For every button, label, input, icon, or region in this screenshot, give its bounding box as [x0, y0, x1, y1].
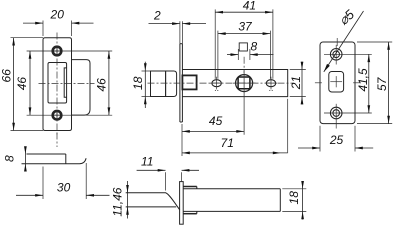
collar bottom [183, 213, 197, 215]
dimension 11,46 bolt height [127, 181, 129, 219]
svg-text:45: 45 [209, 114, 223, 128]
svg-text:18: 18 [287, 191, 301, 205]
dimension 37 [218, 33, 271, 35]
diameter 5 leader line [324, 11, 364, 72]
vertical center line [56, 33, 58, 137]
svg-text:8: 8 [3, 155, 17, 162]
dimension 21 body height [290, 69, 306, 71]
extension lines through screw holes [27, 50, 113, 52]
dimension 30 profile width [42, 167, 44, 200]
dimension 57 [357, 41, 392, 43]
faceplate screw hole upper [330, 49, 342, 61]
collar top [183, 186, 197, 188]
svg-text:25: 25 [329, 133, 344, 147]
screw hole center ticks [335, 45, 337, 65]
slot dots [215, 90, 216, 91]
svg-text:21: 21 [289, 76, 303, 90]
faceplate edge-on [179, 21, 181, 43]
faceplate screw hole lower [330, 107, 342, 119]
dimension 71 [182, 152, 287, 154]
svg-text:2: 2 [153, 9, 161, 23]
svg-text:46: 46 [15, 77, 29, 91]
svg-text:18: 18 [131, 76, 145, 90]
extension lines mounting slots [214, 9, 216, 78]
latch bolt beveled nose [166, 71, 177, 97]
dimension 45 [182, 130, 244, 132]
strike plate front view outline [43, 38, 72, 131]
faceplate center marks [315, 82, 322, 84]
dimension 20 top [42, 21, 44, 37]
horizontal center line [39, 83, 95, 85]
strike profile top surface [27, 153, 66, 155]
extension line faceplate bottom [181, 124, 183, 156]
dimension 46 right [108, 51, 110, 115]
dimension 11 bolt protrusion [165, 172, 167, 190]
body bottom side view [183, 210, 280, 212]
strike profile bottom surface with lip curl [22, 158, 87, 164]
dimension 66 left [11, 37, 44, 39]
solid center marks at features [233, 82, 256, 84]
screw hole lower [53, 111, 62, 120]
body top side view [183, 188, 280, 190]
dimension 18 body height side view [282, 188, 306, 190]
svg-text:41: 41 [243, 0, 256, 13]
strike plate cutout [48, 63, 67, 104]
strike profile step [65, 154, 67, 164]
dimension 18 bolt width [142, 70, 151, 72]
svg-text:30: 30 [57, 181, 71, 195]
svg-text:71: 71 [221, 136, 234, 150]
svg-text:20: 20 [50, 8, 65, 22]
bolt bevel arc side view [166, 193, 180, 210]
svg-text:37: 37 [238, 19, 253, 33]
horizontal center line latch [148, 82, 294, 84]
faceplate side view [180, 182, 184, 225]
spindle circle [236, 75, 253, 92]
dimension 2 faceplate thickness [149, 23, 180, 25]
mounting slot right [266, 80, 275, 87]
dimension square 8 [237, 49, 239, 60]
body right end side view [279, 189, 281, 212]
latch body top view [182, 70, 287, 97]
latch recess bracket inside cutout [64, 68, 66, 97]
dimension 46 inner left [29, 51, 31, 115]
extension line body end [287, 99, 289, 153]
svg-text:46: 46 [95, 78, 109, 92]
extension lines through faceplate holes [324, 53, 372, 55]
svg-text:66: 66 [0, 69, 14, 83]
bolt hole cross marks [330, 81, 342, 83]
faceplate front view outline [320, 42, 355, 124]
center line below strike plate [56, 133, 58, 148]
bolt bottom edge side view [126, 206, 177, 208]
svg-text:41,5: 41,5 [356, 68, 370, 92]
svg-text:57: 57 [375, 76, 389, 91]
dimension 41 [215, 11, 273, 13]
dimension 41,5 [368, 54, 370, 113]
strike plate lip tab [72, 60, 91, 116]
screw hole upper [53, 47, 62, 56]
dimension 25 [319, 126, 321, 152]
dimension 8 profile thickness [24, 147, 26, 172]
bolt hole rounded square [329, 72, 344, 93]
vertical center line spindle [243, 57, 245, 73]
bolt top edge side view [126, 192, 166, 194]
svg-text:8: 8 [250, 40, 257, 54]
latch bolt head top view [151, 71, 166, 97]
svg-text:11,46: 11,46 [111, 187, 125, 216]
spindle square hole 8mm [238, 77, 250, 89]
mounting slot left [212, 80, 221, 87]
bolt shank behind faceplate [182, 75, 196, 89]
svg-text:11: 11 [141, 154, 153, 168]
